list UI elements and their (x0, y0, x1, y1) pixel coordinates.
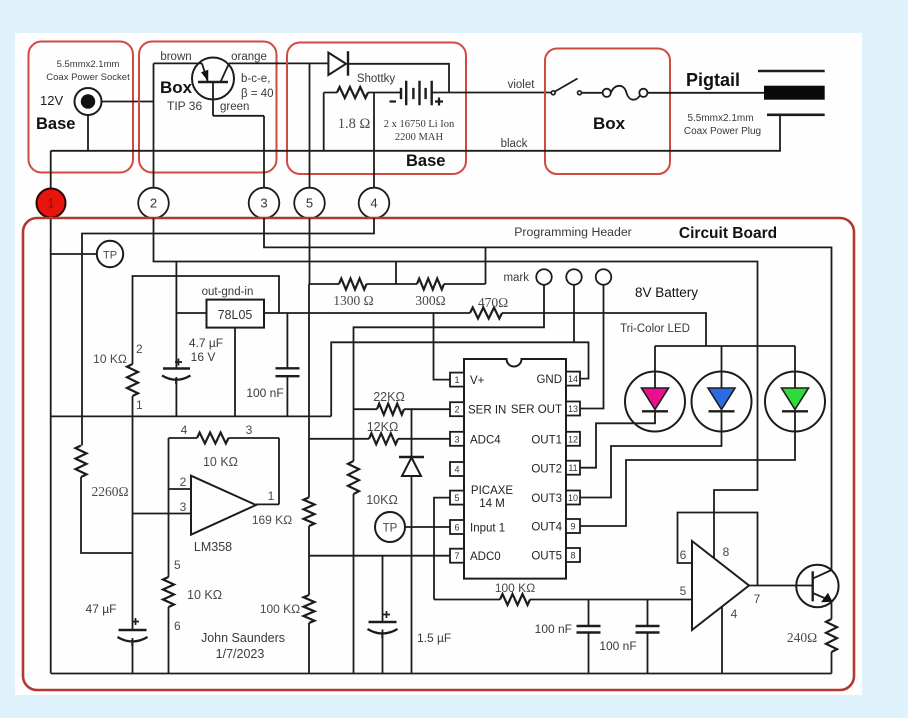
battery minus mark (390, 100, 397, 102)
wire U4 feedback loop (678, 513, 758, 586)
resistor R-1.8ohm leads (324, 92, 401, 94)
resistor R-1.8ohm body (337, 87, 368, 98)
svg-text:Coax Power Plug: Coax Power Plug (684, 126, 761, 137)
svg-text:47 µF: 47 µF (86, 602, 117, 616)
svg-text:1/7/2023: 1/7/2023 (216, 647, 265, 661)
svg-text:4: 4 (454, 465, 459, 475)
svg-text:12KΩ: 12KΩ (367, 420, 399, 434)
wire 5V rail (78L05 out segment) (176, 312, 206, 314)
IC U2 PICAXE 14M body (464, 359, 566, 579)
svg-text:100 KΩ: 100 KΩ (260, 602, 300, 616)
transistor Q1 TIP36 (192, 58, 234, 100)
enclosure box: Box (TIP 36) (139, 42, 277, 173)
wire 100nF-a column (588, 600, 590, 674)
svg-text:GND: GND (536, 374, 562, 386)
svg-text:Circuit Board: Circuit Board (679, 225, 777, 242)
svg-text:OUT2: OUT2 (531, 464, 562, 476)
svg-text:Box: Box (160, 78, 193, 97)
svg-text:100 KΩ: 100 KΩ (495, 581, 535, 595)
wire 100K(v) to gnd rail (308, 623, 310, 674)
node 4 (359, 188, 390, 219)
svg-text:β = 40: β = 40 (241, 88, 274, 100)
svg-text:brown: brown (160, 51, 191, 63)
pin 14 box (U2) (566, 372, 580, 386)
svg-text:TIP 36: TIP 36 (167, 99, 202, 113)
svg-text:2: 2 (180, 475, 187, 489)
svg-text:orange: orange (231, 51, 267, 63)
svg-text:2: 2 (136, 342, 143, 356)
svg-text:SER OUT: SER OUT (511, 404, 562, 416)
svg-text:ADC0: ADC0 (470, 551, 501, 563)
svg-text:5.5mmx2.1mm: 5.5mmx2.1mm (687, 113, 753, 124)
wire node-3 rail to transistor collector (264, 218, 832, 570)
svg-text:78L05: 78L05 (218, 308, 253, 322)
wire Q2 emitter to R240 (831, 601, 833, 619)
regulator U3 78L05 (207, 300, 265, 328)
header pad mark1 (536, 269, 552, 285)
svg-text:3: 3 (260, 196, 267, 211)
wire U4 output to Q2 base (749, 585, 813, 587)
svg-text:16 V: 16 V (191, 350, 216, 364)
wire green (emitter to node-3 column) (213, 115, 264, 117)
wire 1.5uF column (382, 556, 384, 674)
wire 1.8ohm to ground return (323, 93, 325, 151)
wire R-10K bottom to gnd rail (132, 396, 134, 416)
fuse F1 (611, 86, 641, 100)
wire U1 output (256, 503, 279, 505)
resistor R-10K feedback body (197, 433, 229, 444)
svg-text:violet: violet (508, 79, 536, 91)
svg-text:3: 3 (454, 434, 459, 444)
svg-text:8: 8 (570, 551, 575, 561)
svg-text:12V: 12V (40, 93, 63, 108)
svg-text:169 KΩ: 169 KΩ (252, 513, 292, 527)
wire 5V rail (78L05 in to LED bus riser) (264, 313, 706, 346)
wire LM358 feedback row (169, 437, 280, 439)
coax power plug P1 (758, 70, 825, 73)
battery BT1 2x16750 (401, 88, 426, 99)
diode D1 Shottky (328, 53, 346, 75)
pin 7 box (U2) (450, 549, 464, 563)
svg-text:22KΩ: 22KΩ (373, 390, 405, 404)
resistor R-22K body (377, 404, 404, 415)
resistor R-100K(h) body (500, 594, 530, 605)
svg-text:OUT3: OUT3 (531, 493, 562, 505)
svg-text:4.7 µF: 4.7 µF (189, 336, 223, 350)
svg-text:10KΩ: 10KΩ (366, 493, 398, 507)
svg-text:10 KΩ: 10 KΩ (187, 588, 222, 602)
svg-text:3: 3 (180, 500, 187, 514)
pin 11 box (U2) (566, 461, 580, 475)
svg-text:10 KΩ: 10 KΩ (203, 455, 238, 469)
wire feedback riser to output (278, 438, 280, 504)
svg-text:Pigtail: Pigtail (686, 70, 740, 90)
header pad mark2 (566, 269, 582, 285)
pin 2 box (U2) (450, 402, 464, 416)
wire U1 pin3 row (133, 513, 192, 515)
wire node-2 rail to op-amp pin 8 drop (154, 218, 758, 558)
svg-text:John Saunders: John Saunders (201, 631, 285, 645)
svg-text:100 nF: 100 nF (246, 386, 283, 400)
wire 5V/gnd rail (y416) (51, 415, 331, 417)
svg-text:OUT4: OUT4 (531, 522, 562, 534)
svg-text:8V Battery: 8V Battery (635, 285, 698, 300)
resistor R-1300 leads (309, 283, 396, 285)
svg-text:14 M: 14 M (479, 498, 505, 510)
wire node-1 column TP stub (51, 253, 97, 255)
resistor R-12K leads (309, 438, 450, 440)
svg-text:3: 3 (246, 423, 253, 437)
svg-text:2200 MAH: 2200 MAH (395, 132, 444, 143)
wire pin5 to 100K row (434, 498, 450, 600)
svg-text:6: 6 (174, 619, 181, 633)
svg-text:4: 4 (181, 423, 188, 437)
wire 47uF column (132, 416, 134, 673)
svg-text:black: black (501, 138, 528, 150)
pin 4 box (U2) (450, 462, 464, 476)
svg-text:1: 1 (48, 197, 55, 211)
header pad mark3 (596, 269, 612, 285)
svg-text:Base: Base (406, 152, 445, 170)
wire pin10 to LED2 (580, 411, 722, 497)
svg-text:V+: V+ (470, 375, 485, 387)
svg-text:TP: TP (103, 250, 117, 262)
svg-text:9: 9 (570, 522, 575, 532)
svg-text:240Ω: 240Ω (787, 630, 817, 645)
wire pin1 riser to 5V rail (434, 313, 451, 380)
svg-text:6: 6 (454, 523, 459, 533)
svg-text:5: 5 (680, 584, 687, 598)
wire U4 pin4 to gnd (721, 607, 723, 674)
svg-text:10: 10 (568, 493, 578, 503)
wire 100nF-b column (647, 600, 649, 674)
coax power socket J1 (75, 88, 102, 115)
wire mark2 riser (573, 285, 575, 343)
svg-text:Tri-Color LED: Tri-Color LED (620, 323, 690, 335)
svg-text:11: 11 (568, 463, 577, 473)
wire U1 left column (168, 438, 170, 674)
svg-text:Input 1: Input 1 (470, 523, 505, 535)
svg-text:5: 5 (174, 558, 181, 572)
node column 5 (battery box riser) (309, 63, 311, 187)
switch SW1 (551, 91, 555, 95)
resistor R-470 body (470, 308, 502, 319)
resistor R-1300 body (339, 279, 367, 290)
wire pin11 to LED1 (580, 411, 655, 467)
svg-text:mark: mark (503, 272, 529, 284)
svg-text:5: 5 (306, 196, 313, 211)
wire 78L05 gnd stub (234, 328, 236, 417)
test point TP1 (97, 241, 123, 267)
wire mark1 to 22K chain (354, 285, 545, 410)
resistor R-300 body (417, 279, 444, 290)
wire LED3 anode stub (794, 346, 796, 389)
pin 10 box (U2) (566, 491, 580, 505)
svg-text:2 x 16750 Li Ion: 2 x 16750 Li Ion (384, 119, 455, 130)
wire ground rail (bottom) (51, 673, 832, 675)
wire diode cathode to battery plus (348, 64, 449, 93)
svg-text:470Ω: 470Ω (478, 295, 508, 310)
capacitor C1 4.7uF (163, 367, 190, 369)
wire 1300/300 junction riser (395, 262, 397, 285)
svg-text:100 nF: 100 nF (599, 639, 636, 653)
svg-text:2260Ω: 2260Ω (91, 484, 128, 499)
wire ADC0 row (309, 555, 450, 557)
svg-text:5.5mmx2.1mm: 5.5mmx2.1mm (57, 59, 120, 70)
test point TP2 (375, 512, 405, 542)
resistor R-2260 body (76, 446, 87, 478)
wire LED2 anode stub (721, 346, 723, 389)
LED D5 (green) (765, 372, 825, 432)
wire 100K row (434, 599, 692, 601)
resistor R-300 leads (396, 283, 486, 285)
wire node-5 column (to 169K chain) (308, 218, 311, 497)
resistor R-100K(v) body (304, 595, 315, 623)
svg-text:6: 6 (680, 548, 687, 562)
node column 4 (battery minus riser) (373, 93, 375, 188)
wire 169K to 100K column (308, 526, 310, 595)
node 2 (138, 188, 169, 219)
svg-text:Coax Power Socket: Coax Power Socket (46, 72, 130, 83)
svg-text:14: 14 (568, 374, 578, 384)
resistor R-22K leads (354, 408, 451, 410)
capacitor C2 100nF (276, 368, 300, 376)
wire mark3 to pin13 (580, 285, 604, 409)
svg-text:LM358: LM358 (194, 540, 232, 554)
svg-text:Box: Box (593, 114, 626, 133)
svg-text:b-c-e,: b-c-e, (241, 73, 270, 85)
diode D2 clamp (411, 409, 413, 457)
wire switch to fuse (582, 92, 603, 94)
svg-text:ADC4: ADC4 (470, 435, 501, 447)
svg-text:5: 5 (454, 493, 459, 503)
enclosure box: Base (battery) (287, 43, 466, 175)
resistor R-10K (pins 2-1) body (127, 364, 138, 396)
LED D4 (blue) (692, 372, 752, 432)
pin 3 box (U2) (450, 432, 464, 446)
enclosure box: Base (power socket) (29, 42, 134, 173)
resistor R-10K (x353) body (348, 461, 359, 494)
wire plug ground return (51, 115, 780, 151)
svg-text:12: 12 (568, 434, 578, 444)
transistor Q2 (796, 565, 838, 607)
pin 9 box (U2) (566, 519, 580, 533)
pin 12 box (U2) (566, 432, 580, 446)
svg-text:10 KΩ: 10 KΩ (93, 352, 127, 366)
wire pin9 to LED3 (580, 411, 795, 526)
wire orange (collector to diode) (229, 62, 328, 64)
svg-text:TP: TP (383, 523, 398, 535)
node 5 (294, 188, 325, 219)
svg-text:PICAXE: PICAXE (471, 485, 514, 497)
node 3 (249, 188, 280, 219)
node 1 (37, 189, 66, 218)
svg-text:8: 8 (723, 545, 730, 559)
svg-text:4: 4 (370, 196, 377, 211)
svg-text:13: 13 (568, 404, 578, 414)
svg-text:300Ω: 300Ω (415, 293, 445, 308)
wire TP2 to pin6 (405, 526, 450, 528)
node column 3 upper (263, 116, 265, 188)
svg-text:1.5 µF: 1.5 µF (417, 631, 451, 645)
svg-text:OUT1: OUT1 (531, 435, 562, 447)
wire 100nF column (286, 313, 288, 416)
pin 5 box (U2) (450, 491, 464, 505)
svg-text:Base: Base (36, 115, 75, 133)
wire R240 to gnd rail (831, 652, 833, 674)
wire brown (base lead) (154, 62, 203, 64)
svg-text:1: 1 (454, 375, 459, 385)
svg-text:2: 2 (454, 405, 459, 415)
wire 2260 bottom jog (81, 477, 133, 553)
wire fuse to plug (648, 92, 765, 94)
capacitor C5 100nF (577, 626, 601, 633)
svg-text:Programming Header: Programming Header (514, 225, 632, 239)
resistor R-10K (pins 5-6) body (163, 577, 174, 607)
op-amp U1 LM358 (191, 476, 256, 535)
battery plus mark (435, 98, 443, 106)
wire R-10K(x353) column (353, 409, 355, 673)
svg-text:green: green (220, 101, 249, 113)
svg-text:100 nF: 100 nF (535, 622, 572, 636)
wire LED1 anode stub (654, 346, 656, 389)
wire 78L05 in loop to R-10K (133, 276, 280, 364)
svg-text:1: 1 (136, 398, 143, 412)
wire U1 pin2 row (169, 488, 192, 490)
op-amp U4 (right) (692, 541, 749, 630)
svg-text:4: 4 (731, 607, 738, 621)
circuit board outline (23, 218, 854, 690)
resistor R-12K body (369, 433, 398, 444)
wire 300 right riser (485, 247, 487, 284)
node column 2 upper (153, 63, 155, 187)
svg-text:2: 2 (150, 196, 157, 211)
svg-text:7: 7 (754, 592, 761, 606)
capacitor C3 47uF (119, 629, 147, 631)
enclosure box: Box (switch) (545, 49, 670, 175)
svg-text:OUT5: OUT5 (531, 551, 562, 563)
wire 4.7uF column (175, 262, 177, 417)
node column 1 (50, 151, 52, 674)
wire node-4 rail to 2260 column (82, 218, 374, 445)
wire battery plus to switch (violet net) (432, 92, 552, 94)
svg-text:1.8 Ω: 1.8 Ω (338, 116, 371, 132)
LED D3 (pink) (625, 372, 685, 432)
svg-text:Shottky: Shottky (357, 73, 396, 85)
capacitor C4 1.5uF (369, 621, 397, 623)
resistor R-169K body (304, 497, 315, 526)
pin 8 box (U2) (566, 548, 580, 562)
capacitor C6 100nF (636, 626, 660, 633)
pin 1 box (U2) (450, 373, 464, 387)
pin 6 box (U2) (450, 520, 464, 534)
svg-text:1300 Ω: 1300 Ω (333, 293, 373, 308)
pin 13 box (U2) (566, 402, 580, 416)
svg-text:out-gnd-in: out-gnd-in (202, 286, 254, 298)
svg-text:SER IN: SER IN (468, 405, 506, 417)
resistor R-240 body (826, 619, 837, 652)
svg-text:1: 1 (268, 489, 275, 503)
svg-text:7: 7 (454, 551, 459, 561)
wire gnd link (pin14/mark2) (331, 342, 588, 416)
wire socket to node-2 column (102, 101, 154, 103)
wire socket ground stub (87, 115, 89, 151)
wire LED anode bus (655, 345, 795, 347)
